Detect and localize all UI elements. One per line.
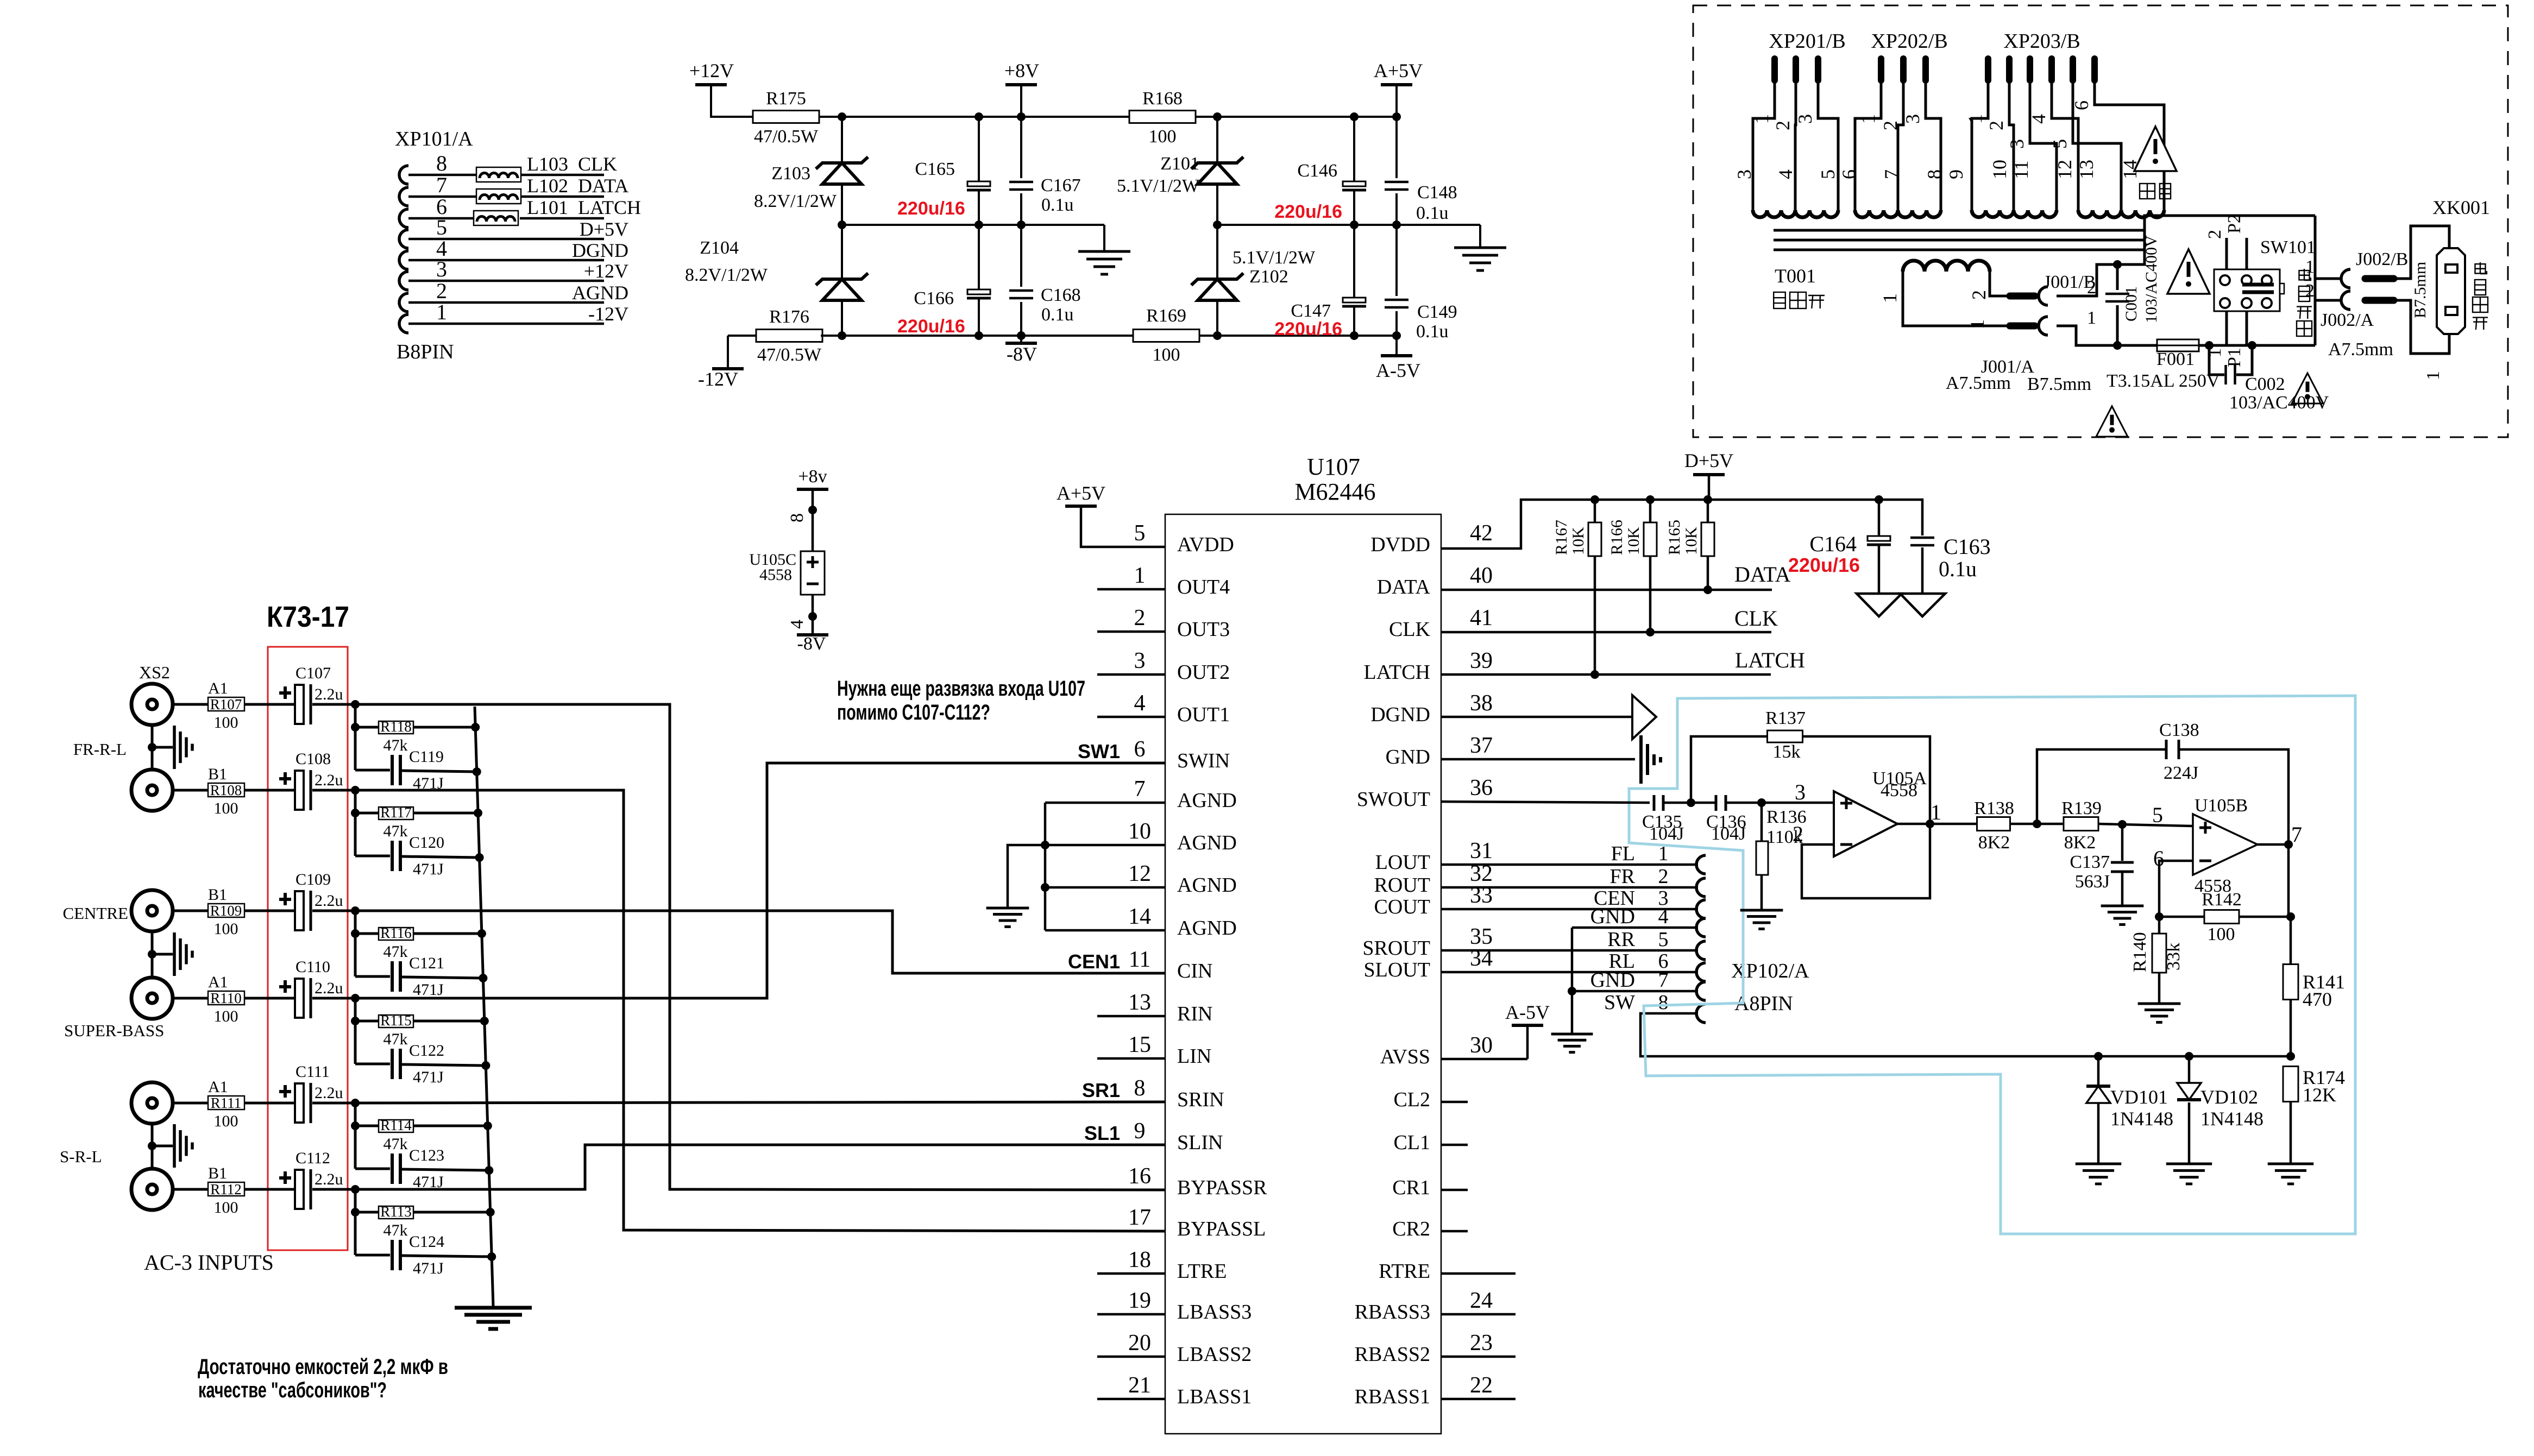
node row 6: [351, 1185, 360, 1194]
node U105C pin8: [787, 506, 817, 522]
net label AGND: [572, 282, 628, 304]
capacitor C119: [392, 748, 444, 792]
svg-text:AGND: AGND: [1177, 917, 1237, 940]
ground jack pair: [174, 932, 192, 976]
net label SL1: [1084, 1122, 1120, 1144]
svg-text:RIN: RIN: [1177, 1003, 1212, 1025]
svg-text:FR-R-L: FR-R-L: [73, 740, 127, 759]
IC U107 pin 23 RBASS2: [1355, 1331, 1493, 1366]
switch SW101 label: [2260, 237, 2316, 336]
transformer tap 12 label: [2054, 160, 2076, 179]
svg-text:0.1u: 0.1u: [1939, 557, 1977, 581]
label K73-17: [267, 601, 349, 633]
connector XP102/A pin 4 GND: [1590, 905, 1706, 937]
resistor R175: [753, 89, 819, 147]
svg-text:47k: 47k: [383, 943, 408, 961]
svg-text:224J: 224J: [2164, 763, 2198, 783]
svg-text:M62446: M62446: [1294, 478, 1375, 505]
transformer tap 9 label: [1945, 169, 1967, 179]
svg-text:100: 100: [1153, 345, 1180, 365]
svg-text:DATA: DATA: [1377, 576, 1431, 598]
transformer T001 label: [1774, 265, 1825, 308]
svg-text:-8V: -8V: [797, 634, 826, 654]
node row 1: [351, 700, 360, 709]
svg-text:8: 8: [1134, 1076, 1146, 1101]
svg-text:17: 17: [1128, 1205, 1151, 1230]
net label DGND: [572, 239, 628, 261]
svg-text:AGND: AGND: [1177, 789, 1237, 812]
wire COUT to XP102: [1441, 908, 1698, 911]
wire mid rail left + ground: [842, 220, 1104, 251]
svg-text:R107: R107: [210, 696, 242, 713]
transformer T001 secondary winding 9-10-11: [1972, 210, 2057, 217]
wire R108 to C108: [244, 789, 295, 792]
wire SW net to clamp rail: [1640, 1013, 2291, 1056]
svg-text:30: 30: [1470, 1033, 1493, 1058]
svg-text:11: 11: [2010, 160, 2032, 179]
svg-text:8.2V/1/2W: 8.2V/1/2W: [754, 191, 837, 211]
wire U107 OUT4 stub: [1097, 588, 1165, 591]
transformer tap 4 label: [1775, 169, 1796, 179]
wire R138 to R139: [2010, 820, 2064, 828]
svg-text:47k: 47k: [383, 1030, 408, 1048]
power A+5V AVDD: [1057, 482, 1165, 547]
svg-text:R175: R175: [766, 89, 806, 109]
svg-text:+12V: +12V: [689, 60, 734, 81]
wire J002/B to socket: [2394, 226, 2449, 279]
connector XP101/A pin 3: [399, 257, 604, 290]
transformer T001 core: [1774, 230, 2146, 250]
svg-text:10K: 10K: [1569, 527, 1587, 555]
switch SW101 terminal P2: [2205, 214, 2247, 269]
svg-text:R165: R165: [1665, 520, 1683, 555]
connector XP102/A pin 5 RR: [1607, 928, 1706, 960]
wire C108 out: [312, 789, 356, 792]
IC U107 pin 13 RIN: [1128, 990, 1212, 1025]
resistor R166: [1608, 500, 1657, 633]
label A7.5mm J002: [2328, 339, 2393, 360]
svg-text:9: 9: [1945, 169, 1967, 179]
svg-text:CLK: CLK: [578, 153, 617, 175]
transformer tap 3 label: [1733, 169, 1755, 179]
wire U105B output: [2258, 840, 2293, 849]
svg-text:42: 42: [1470, 521, 1493, 546]
wire U107 RIN stub: [1097, 1015, 1165, 1018]
wire U107 CR1 stub: [1441, 1189, 1468, 1192]
svg-text:471J: 471J: [413, 981, 444, 999]
svg-text:4558: 4558: [759, 566, 792, 584]
svg-text:47/0.5W: 47/0.5W: [757, 345, 822, 365]
op-amp U105A: [1793, 768, 1941, 856]
svg-text:1N4148: 1N4148: [2200, 1108, 2263, 1130]
IC U107 pin 21 LBASS1: [1128, 1373, 1252, 1408]
svg-text:1: 1: [1857, 114, 1879, 124]
capacitor C148: [1385, 117, 1457, 225]
IC U107 pin 17 BYPASSL: [1128, 1205, 1266, 1240]
wire R110 to C110: [244, 997, 295, 1000]
net label +12V: [584, 260, 628, 282]
capacitor C146: [1274, 117, 1366, 225]
svg-text:SROUT: SROUT: [1362, 937, 1430, 960]
zener Z103: [754, 117, 868, 225]
node SW rail R141: [2286, 1052, 2295, 1061]
IC U107 pin 30 AVSS: [1380, 1033, 1493, 1068]
ground triangle C163: [1900, 594, 1945, 616]
connector XP101/A pin 4: [399, 236, 604, 269]
svg-text:FL: FL: [1611, 842, 1635, 865]
wire U105A output: [1897, 820, 1977, 828]
transformer tap 6 label: [1838, 169, 1860, 179]
svg-text:SRIN: SRIN: [1177, 1088, 1224, 1111]
resistor R140: [2130, 917, 2184, 1004]
wire R111 to C111: [244, 1102, 295, 1105]
wire C107 out: [312, 703, 356, 706]
IC U107 pin 1 OUT4: [1134, 563, 1230, 598]
resistor R165: [1665, 500, 1714, 590]
connector J001/B plug and socket: [2010, 264, 2117, 305]
svg-text:C163: C163: [1944, 534, 1991, 559]
svg-text:CENTRE: CENTRE: [62, 904, 128, 923]
wire U107 RBASS1 stub: [1441, 1398, 1516, 1401]
resistor R142: [2159, 890, 2291, 944]
wire U105A feedback: [1802, 823, 1930, 898]
wire ladder row 1: [351, 704, 477, 772]
connector XP203/B pin 6: [2071, 59, 2164, 210]
IC U107 pin 38 DGND: [1370, 691, 1493, 726]
svg-text:LATCH: LATCH: [578, 197, 641, 218]
svg-text:XP101/A: XP101/A: [395, 128, 473, 150]
svg-text:R113: R113: [380, 1203, 412, 1220]
label XS2: [139, 663, 170, 682]
capacitor C121: [392, 954, 444, 999]
IC U107 pin 8 SRIN: [1134, 1076, 1224, 1111]
inductor L101: [474, 197, 568, 225]
warning triangle near fuse: [2096, 406, 2128, 437]
connector J002/A: [2305, 281, 2394, 330]
connector XP102/A pin 8 SW: [1604, 991, 1706, 1023]
note text bottom: [198, 1355, 448, 1402]
power -8V: [1005, 336, 1037, 365]
label B7.5mm J001: [2027, 374, 2091, 394]
wire U107 RBASS3 stub: [1441, 1313, 1516, 1316]
svg-text:OUT1: OUT1: [1177, 703, 1230, 726]
wire jack to R110: [173, 997, 208, 1000]
svg-text:BYPASSR: BYPASSR: [1177, 1176, 1267, 1199]
svg-text:C123: C123: [409, 1146, 444, 1164]
svg-text:BYPASSL: BYPASSL: [1177, 1218, 1266, 1240]
wire AGND to ground: [1008, 845, 1045, 908]
net label D+5V: [580, 218, 628, 240]
svg-text:220u/16: 220u/16: [1274, 319, 1342, 339]
svg-text:-12V: -12V: [698, 368, 738, 390]
ground R174: [2268, 1164, 2313, 1184]
svg-text:R142: R142: [2202, 890, 2242, 910]
svg-text:C001: C001: [2122, 286, 2140, 322]
svg-text:U107: U107: [1307, 453, 1360, 480]
svg-text:C137: C137: [2070, 852, 2110, 872]
node bus row 4: [480, 1017, 491, 1070]
IC U107 pin nc CL2: [1393, 1088, 1430, 1111]
svg-text:LATCH: LATCH: [1735, 648, 1805, 672]
wire DGND: [1441, 716, 1632, 718]
IC U107 pin 24 RBASS3: [1355, 1288, 1493, 1323]
svg-text:Z102: Z102: [1249, 267, 1288, 287]
svg-text:104J: 104J: [1711, 824, 1746, 844]
svg-text:100: 100: [214, 714, 238, 732]
wire R109 to C109: [244, 910, 295, 912]
svg-text:Z103: Z103: [771, 163, 810, 184]
svg-text:2: 2: [2087, 278, 2096, 298]
wire jack pair common: [148, 1124, 173, 1169]
IC U107 pin 11 CIN: [1129, 947, 1213, 982]
connector XP101/A pin 2: [399, 279, 604, 312]
svg-text:SUPER-BASS: SUPER-BASS: [64, 1021, 164, 1040]
svg-text:DATA: DATA: [578, 175, 628, 197]
svg-text:A1: A1: [208, 1078, 228, 1096]
IC U107 pin 34 SLOUT: [1364, 946, 1493, 981]
svg-text:AVSS: AVSS: [1380, 1045, 1430, 1068]
IC U107 pin nc RTRE: [1379, 1260, 1430, 1283]
GND rake symbol: [1641, 735, 1661, 784]
IC U107 pin 10 AGND: [1128, 819, 1237, 854]
svg-text:1: 1: [1134, 563, 1146, 588]
svg-text:3: 3: [436, 257, 447, 281]
svg-text:качестве "сабсоников"?: качестве "сабсоников"?: [198, 1378, 387, 1402]
svg-text:12: 12: [2054, 160, 2076, 179]
wire jack pair common: [148, 725, 173, 770]
ground AGND: [986, 908, 1029, 926]
switch SW101 box: [2214, 269, 2284, 311]
svg-text:C147: C147: [1291, 301, 1331, 321]
net label DATA right: [1734, 562, 1791, 587]
svg-text:R139: R139: [2061, 798, 2102, 818]
IC U107 pin 5 AVDD: [1134, 521, 1234, 556]
warning triangle big: [2134, 127, 2177, 199]
svg-text:SLIN: SLIN: [1177, 1131, 1223, 1154]
svg-text:C122: C122: [409, 1042, 444, 1060]
svg-text:C168: C168: [1041, 285, 1081, 305]
wire top rail left: [819, 112, 1129, 121]
wire mid rail right + ground: [1217, 220, 1480, 248]
capacitor C147: [1274, 225, 1366, 339]
resistor R118: [379, 718, 413, 754]
svg-text:9: 9: [1134, 1119, 1146, 1144]
IC U107 pin 39 LATCH: [1364, 648, 1493, 684]
svg-text:CL2: CL2: [1393, 1088, 1430, 1111]
IC U107 pin 7 AGND: [1134, 777, 1237, 812]
svg-text:12K: 12K: [2303, 1084, 2336, 1106]
node row 2: [351, 786, 360, 795]
svg-text:C124: C124: [409, 1233, 444, 1251]
svg-text:100: 100: [214, 1112, 238, 1130]
svg-text:3: 3: [1794, 114, 1816, 124]
wire ladder row 5: [351, 1103, 489, 1170]
svg-text:6: 6: [1134, 737, 1146, 762]
svg-text:21: 21: [1128, 1373, 1151, 1398]
label A7.5mm J001: [1946, 373, 2011, 393]
svg-text:R138: R138: [1974, 798, 2014, 818]
net label LATCH: [578, 197, 641, 218]
svg-text:SW101: SW101: [2260, 237, 2316, 257]
svg-text:2: 2: [1658, 865, 1669, 888]
capacitor C149: [1385, 225, 1457, 342]
wire mains bottom rail: [2117, 344, 2157, 347]
label AC-3 INPUTS: [144, 1250, 274, 1275]
connector J002/B: [2305, 249, 2408, 288]
inductor L103: [476, 153, 568, 182]
connector XP203/B pin 3: [2006, 59, 2057, 210]
svg-text:R114: R114: [380, 1117, 412, 1133]
svg-text:5.1V/1/2W: 5.1V/1/2W: [1233, 248, 1316, 268]
transformer tap 7 label: [1881, 169, 1902, 179]
svg-text:LBASS1: LBASS1: [1177, 1385, 1252, 1408]
svg-text:A1: A1: [208, 973, 228, 991]
svg-text:1: 1: [1964, 114, 1986, 124]
svg-text:2: 2: [1793, 822, 1803, 846]
wire jack to R108: [173, 789, 208, 792]
svg-text:+12V: +12V: [584, 260, 628, 282]
svg-text:R115: R115: [380, 1012, 412, 1029]
wire R107 to C107: [244, 703, 295, 706]
svg-text:47k: 47k: [383, 736, 408, 754]
wire U107 OUT1 stub: [1097, 716, 1165, 718]
svg-text:XS2: XS2: [139, 663, 170, 682]
node C001 bottom: [2113, 341, 2122, 350]
capacitor C136: [1706, 795, 1746, 844]
svg-text:R109: R109: [210, 903, 242, 919]
svg-text:16: 16: [1128, 1164, 1151, 1189]
resistor R112: [208, 1164, 244, 1217]
svg-text:C149: C149: [1417, 302, 1457, 322]
svg-text:18: 18: [1128, 1247, 1151, 1272]
node bus row 1: [471, 723, 481, 776]
svg-text:D+5V: D+5V: [580, 218, 628, 240]
IC U107 pin 20 LBASS2: [1128, 1331, 1252, 1366]
power socket XK001: [2437, 248, 2465, 334]
svg-text:1: 1: [1966, 319, 1988, 329]
resistor R176: [756, 307, 822, 365]
wire bottom rail left: [821, 331, 1133, 340]
wire U107 LTRE stub: [1097, 1272, 1165, 1275]
label FR-R-L: [73, 740, 127, 759]
svg-text:41: 41: [1470, 606, 1493, 631]
svg-text:563J: 563J: [2075, 872, 2110, 892]
connector XP203/B pin 1: [1964, 59, 1988, 210]
resistor R168: [1129, 89, 1196, 147]
net label CLK: [578, 153, 617, 175]
svg-text:RBASS3: RBASS3: [1355, 1301, 1430, 1323]
svg-text:R166: R166: [1608, 520, 1626, 555]
RCA jack XS2 row 5: [131, 1082, 173, 1124]
wire U107 CL1 stub: [1441, 1144, 1468, 1146]
svg-text:A1: A1: [208, 679, 228, 697]
transformer tap 13 label: [2076, 160, 2097, 179]
wire SLOUT to XP102: [1441, 971, 1698, 974]
resistor R169: [1133, 306, 1199, 365]
svg-text:100: 100: [214, 1007, 238, 1025]
svg-text:2: 2: [1985, 121, 2007, 130]
dashed enclosure mains section: [1693, 5, 2508, 437]
capacitor C107: [279, 664, 343, 724]
svg-text:P2: P2: [2224, 214, 2244, 234]
svg-text:5: 5: [2152, 803, 2163, 827]
svg-text:24: 24: [1470, 1288, 1493, 1313]
IC U107 pin 3 OUT2: [1134, 648, 1230, 684]
svg-text:1: 1: [1879, 293, 1901, 303]
svg-text:CIN: CIN: [1177, 960, 1212, 982]
wire mains right loop: [2314, 216, 2317, 345]
capacitor C163: [1879, 500, 1991, 594]
note text input decoupling: [837, 677, 1085, 724]
zener Z104: [685, 225, 868, 336]
svg-text:R112: R112: [210, 1181, 242, 1197]
resistor R108: [208, 765, 244, 817]
svg-text:5: 5: [2049, 139, 2071, 149]
wire C112 out: [312, 1188, 356, 1191]
svg-text:R111: R111: [211, 1095, 242, 1111]
svg-text:0.1u: 0.1u: [1041, 305, 1074, 325]
svg-text:100: 100: [214, 1199, 238, 1217]
IC U107 pin 32 ROUT: [1374, 861, 1493, 897]
svg-text:F001: F001: [2156, 349, 2195, 369]
svg-text:15: 15: [1128, 1032, 1151, 1057]
capacitor C167: [1009, 117, 1081, 225]
capacitor C135: [1642, 795, 1684, 844]
capacitor C112: [279, 1149, 343, 1209]
svg-text:R118: R118: [380, 718, 412, 735]
svg-text:8: 8: [787, 513, 807, 522]
svg-text:4: 4: [1134, 691, 1146, 716]
node Z103-Z104: [838, 220, 846, 229]
svg-text:AGND: AGND: [572, 282, 628, 304]
wire ladder row 4: [351, 998, 486, 1066]
connector XP202/B pin 1: [1855, 59, 1881, 210]
resistor R110: [208, 973, 244, 1025]
transformer tap 5 label: [1817, 169, 1839, 179]
svg-text:R108: R108: [210, 782, 242, 798]
svg-text:5: 5: [1134, 521, 1146, 546]
resistor R137: [1691, 708, 1930, 823]
svg-text:0.1u: 0.1u: [1416, 322, 1449, 342]
wire U107 LBASS3 stub: [1097, 1313, 1165, 1316]
IC U107 pin 2 OUT3: [1134, 606, 1230, 641]
wire C135 to C136: [1663, 798, 1716, 807]
svg-text:C111: C111: [295, 1063, 330, 1081]
connector XP201/B label: [1769, 30, 1845, 53]
capacitor C168: [1009, 225, 1081, 336]
wire jack to R111: [173, 1102, 208, 1105]
connector XP203/B pin 5: [2049, 59, 2121, 210]
DGND arrow symbol: [1632, 695, 1656, 739]
connector XP101/A pin 8: [399, 151, 604, 184]
capacitor C110: [279, 958, 343, 1018]
wire DATA: [1441, 585, 1772, 594]
wire FR-A to BYPASSR: [355, 704, 1165, 1190]
RCA jack XS2 row 4: [131, 978, 173, 1019]
svg-text:470: 470: [2303, 988, 2332, 1010]
resistor R113: [379, 1203, 413, 1239]
svg-text:COUT: COUT: [1374, 896, 1430, 918]
svg-text:LBASS2: LBASS2: [1177, 1343, 1252, 1366]
capacitor C166: [897, 225, 991, 337]
svg-text:220u/16: 220u/16: [897, 198, 965, 219]
node U105C pin4: [787, 595, 817, 635]
connector XP102/A pin 6 RL: [1608, 950, 1706, 981]
resistor R114: [379, 1117, 413, 1153]
power +8v U105C: [797, 467, 828, 551]
svg-text:R169: R169: [1146, 306, 1186, 326]
IC U107 pin 9 SLIN: [1134, 1119, 1223, 1154]
